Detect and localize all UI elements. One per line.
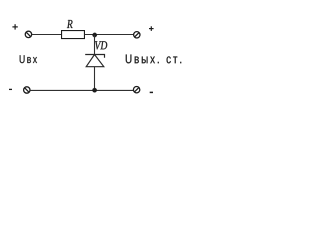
resistor R (62, 31, 85, 39)
minus sign bottom-right (150, 91, 153, 93)
label Uvx (input voltage) (20, 55, 37, 63)
plus sign top-right (149, 26, 154, 31)
zener diode VD: cathode bar with tick (85, 55, 104, 58)
label R (67, 20, 73, 28)
plus sign top-left (12, 24, 17, 29)
label Uvyx. st. (output stabilized voltage) (126, 55, 181, 64)
terminal X3 bottom-left (24, 87, 30, 93)
minus sign bottom-left (9, 88, 12, 90)
wire: zener anode down to bottom rail (94, 67, 96, 91)
terminal X1 top-left (25, 31, 31, 37)
junction node top (93, 33, 97, 37)
wire: resistor to terminal X2 (85, 34, 134, 36)
zener diode VD: triangle (86, 55, 104, 67)
label VD (95, 41, 107, 49)
wire: bottom rail (30, 89, 133, 91)
terminal X2 top-right (134, 32, 140, 38)
junction node bottom (92, 88, 96, 92)
wire: junction down to zener cathode (94, 35, 96, 55)
wire: X1 to resistor (32, 34, 62, 36)
terminal X4 bottom-right (133, 87, 139, 93)
